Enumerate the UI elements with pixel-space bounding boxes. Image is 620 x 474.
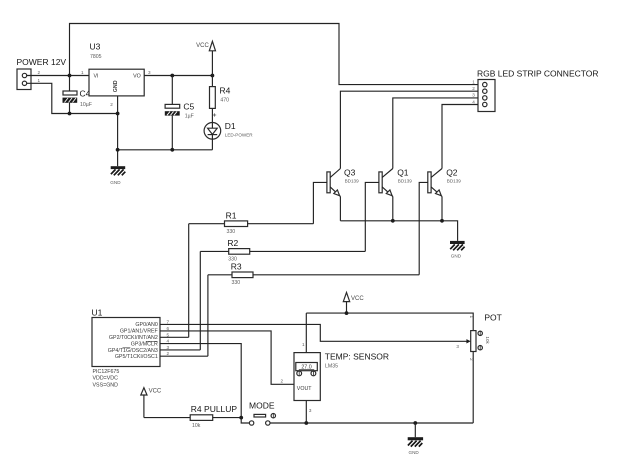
wire RGB pin3 to Q1 collector (393, 98, 478, 169)
node junction C4 bottom (68, 112, 72, 116)
wire U1 pin5 to R1 (160, 336, 189, 338)
svg-text:VDD=VDC: VDD=VDC (93, 376, 119, 382)
label R3 value (231, 261, 242, 286)
svg-text:LED-POWER: LED-POWER (225, 133, 254, 138)
svg-text:GP1/AN1/VREF: GP1/AN1/VREF (120, 329, 159, 335)
svg-text:470: 470 (220, 98, 229, 104)
svg-text:GP5/T1CKI/OSC1: GP5/T1CKI/OSC1 (115, 354, 158, 360)
svg-text:C5: C5 (183, 101, 194, 111)
label D1 LED-POWER (225, 121, 254, 138)
capacitor C5 (165, 76, 180, 150)
ground symbol under transistors (450, 241, 465, 259)
regulator U3 body (89, 69, 144, 96)
svg-text:1: 1 (469, 316, 474, 319)
connector J1 POWER 12V body (17, 69, 31, 90)
svg-text:330: 330 (232, 280, 241, 286)
label C4 value (80, 89, 92, 108)
svg-text:D1: D1 (225, 121, 236, 131)
power symbol VCC near U1 (141, 388, 162, 418)
svg-text:GP3/MCLR: GP3/MCLR (131, 342, 158, 348)
svg-text:GP2/T0CKI/INT/AN2: GP2/T0CKI/INT/AN2 (109, 335, 158, 341)
node junction LM35 pin3 (304, 421, 308, 425)
svg-text:1: 1 (38, 78, 41, 83)
svg-text:1µF: 1µF (185, 114, 194, 120)
svg-text:3: 3 (456, 344, 459, 349)
svg-text:GND: GND (113, 80, 119, 92)
wire ground rail under U3 (118, 149, 213, 151)
svg-text:330: 330 (227, 229, 236, 235)
ground symbol under U3 (110, 166, 125, 185)
capacitor C4 (63, 76, 78, 114)
wire U3 pin2 to ground (117, 96, 119, 166)
svg-text:10k: 10k (485, 336, 490, 344)
svg-text:3: 3 (148, 70, 151, 75)
svg-text:POT: POT (484, 313, 501, 323)
resistor R3 (208, 272, 419, 356)
wire switch to bottom rail (270, 422, 473, 424)
MCU U1 body PIC12F675 (92, 318, 160, 367)
svg-text:6: 6 (167, 326, 170, 331)
label TEMP SENSOR LM35 (325, 351, 389, 369)
wire RGB pin2 to Q3 collector (340, 91, 478, 168)
wire U1 pin6 to LM35 VOUT (160, 331, 294, 384)
svg-text:PIC12F675: PIC12F675 (93, 369, 120, 375)
power symbol VCC top (196, 41, 215, 75)
svg-text:3: 3 (167, 345, 170, 350)
svg-text:GP4/T1G/OSC2/AN3: GP4/T1G/OSC2/AN3 (108, 348, 158, 354)
LED D1 (204, 123, 221, 150)
node junction GP3/R4/switch (239, 416, 243, 420)
label Q3 BD139 (344, 167, 359, 183)
svg-text:Q1: Q1 (397, 167, 409, 177)
svg-text:VOUT: VOUT (297, 386, 312, 392)
svg-text:VCC: VCC (351, 296, 364, 302)
wire node to switch (241, 418, 249, 423)
svg-text:2: 2 (167, 351, 170, 356)
switch MODE pushbutton (249, 414, 275, 426)
svg-text:7: 7 (167, 319, 170, 324)
svg-text:Q2: Q2 (446, 167, 458, 177)
svg-text:TEMP: SENSOR: TEMP: SENSOR (325, 351, 389, 361)
wire U1 pin4 to MODE node (160, 344, 241, 418)
svg-text:10µF: 10µF (80, 102, 92, 108)
svg-text:5: 5 (167, 332, 170, 337)
svg-text:2: 2 (472, 86, 475, 91)
label R2 value (227, 238, 238, 263)
node junction VCC stem (345, 311, 349, 315)
svg-text:R4: R4 (220, 86, 231, 96)
ground symbol bottom (408, 423, 423, 455)
transistor Q1 (365, 169, 393, 252)
resistor R4 PULLUP (190, 415, 241, 421)
svg-text:1: 1 (472, 79, 475, 84)
resistor R1 (189, 221, 314, 337)
svg-text:GND: GND (451, 254, 462, 259)
sensor U2 LM35 body (294, 353, 320, 401)
svg-text:BD139: BD139 (398, 179, 412, 184)
label Q1 BD139 (397, 167, 412, 183)
svg-text:U1: U1 (92, 307, 103, 317)
svg-text:Q3: Q3 (344, 167, 356, 177)
node junction Q2 emitter (440, 219, 444, 223)
wire U1 pin3 to R2 (160, 349, 200, 351)
svg-text:VCC: VCC (149, 389, 162, 395)
svg-text:MODE: MODE (249, 400, 275, 410)
svg-text:2: 2 (281, 379, 284, 384)
svg-text:3: 3 (309, 408, 312, 413)
transistor Q3 (313, 169, 340, 224)
wire U3 VO to VCC node (144, 75, 212, 77)
svg-text:LM35: LM35 (325, 364, 338, 370)
svg-text:VI: VI (94, 74, 99, 80)
svg-text:R4 PULLUP: R4 PULLUP (191, 404, 238, 414)
wire RGB pin4 to Q2 collector (442, 105, 478, 169)
node junction ground rail / U3 pin2 (116, 148, 120, 152)
svg-text:7805: 7805 (90, 54, 102, 60)
svg-text:10k: 10k (192, 423, 201, 429)
node junction VCC/R4 (211, 74, 215, 78)
label PIC12F675 VDD VSS (93, 369, 120, 389)
power symbol VCC analog (343, 292, 364, 313)
svg-text:2: 2 (38, 70, 41, 75)
node junction J1pin2/C4/rail (68, 74, 72, 78)
wire emitter rail to ground (340, 221, 457, 241)
node junction Q1 emitter (391, 219, 395, 223)
svg-text:VCC: VCC (196, 43, 209, 49)
svg-text:GND: GND (409, 450, 420, 455)
svg-text:RGB LED STRIP CONNECTOR: RGB LED STRIP CONNECTOR (477, 68, 599, 78)
svg-text:GP0/AN0: GP0/AN0 (135, 322, 157, 328)
svg-text:4: 4 (472, 99, 475, 104)
label R4 PULLUP value (191, 404, 238, 429)
wire analog VCC rail (306, 313, 473, 331)
svg-text:BD139: BD139 (345, 179, 359, 184)
svg-text:VSS=GND: VSS=GND (93, 383, 119, 389)
svg-text:U3: U3 (90, 42, 101, 52)
label C5 value (183, 101, 194, 119)
svg-text:VO: VO (133, 74, 141, 80)
svg-text:BD139: BD139 (447, 179, 461, 184)
wire J1 pin1 to ground net (27, 83, 118, 113)
wire 12V rail to RGB connector pin1 (70, 24, 479, 85)
svg-text:2: 2 (110, 102, 113, 107)
svg-text:4: 4 (167, 339, 170, 344)
node junction bottom ground (413, 421, 417, 425)
wire U1 pin2 to R3 (160, 355, 208, 357)
node junction U3 pin2 / input ground (116, 112, 120, 116)
svg-text:R3: R3 (231, 261, 242, 271)
wire VCC to R4 pullup (144, 417, 190, 419)
label Q2 BD139 (446, 167, 461, 183)
plus mark of D1 (213, 113, 216, 116)
svg-text:2: 2 (469, 358, 474, 361)
svg-text:R1: R1 (226, 210, 237, 220)
svg-text:3: 3 (472, 93, 475, 98)
svg-text:GND: GND (110, 180, 121, 185)
regulator U3 7805 label (90, 42, 102, 61)
connector RGB LED STRIP body (478, 80, 495, 112)
svg-text:POWER 12V: POWER 12V (17, 57, 67, 67)
label R1 value (226, 210, 237, 235)
potentiometer POT body (466, 331, 490, 423)
wire LM35 pin3 to bottom rail (305, 401, 307, 424)
resistor R4 (210, 76, 216, 123)
transistor Q2 (419, 169, 442, 275)
wire LM35 pin1 to VCC rail (305, 313, 307, 353)
wire J1 pin2 to U3 VI (27, 75, 89, 77)
svg-text:R2: R2 (227, 238, 238, 248)
node junction C5 top (170, 74, 174, 78)
label R4 value (220, 86, 231, 104)
resistor R2 (200, 249, 365, 350)
svg-text:1: 1 (302, 342, 305, 347)
svg-text:1: 1 (81, 70, 84, 75)
node junction ground rail / C5 (170, 148, 174, 152)
wire U1 pin7 to POT wiper (160, 324, 467, 341)
